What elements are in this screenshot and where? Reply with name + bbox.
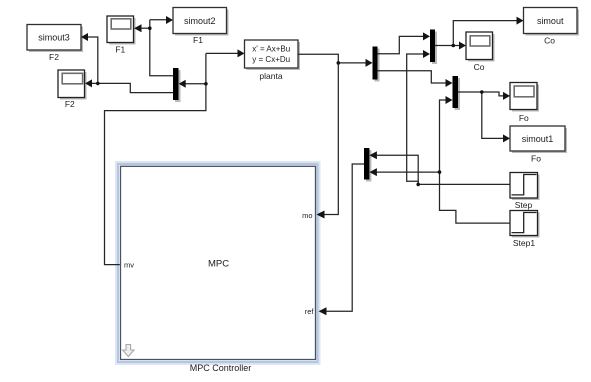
source block Step (flipped) <box>510 173 540 201</box>
scope F1 <box>107 16 136 45</box>
svg-text:Fo: Fo <box>531 154 541 164</box>
arrowhead into mux M3 in1 <box>446 79 453 87</box>
svg-text:MPC Controller: MPC Controller <box>190 363 252 373</box>
svg-text:simout3: simout3 <box>38 33 70 43</box>
arrowhead into demux D2 <box>179 80 186 88</box>
arrowhead into planta <box>238 49 245 57</box>
wire step to mux M2 input2 <box>407 54 424 184</box>
svg-text:Co: Co <box>544 36 555 46</box>
wire to scope F2 <box>91 83 173 92</box>
block simout2 <box>173 8 229 36</box>
arrowhead into mux M3 in2 <box>446 96 453 104</box>
demux D2 (left, flipped) <box>173 68 181 102</box>
wire simout3 feed <box>87 37 98 83</box>
arrowhead into simout1 <box>503 134 510 142</box>
wire junction to simout2 <box>150 19 167 21</box>
wire mux M4 out to ref <box>327 164 365 311</box>
wire mv line <box>105 53 206 264</box>
junction node at Co tap <box>452 44 456 48</box>
arrowhead into scope Fo <box>503 92 510 100</box>
wire demux D2 input <box>185 83 206 85</box>
junction node at simout3/F2 tap <box>96 82 100 86</box>
wire mux M2 out to scope Co <box>435 45 460 47</box>
svg-text:Step: Step <box>515 200 533 210</box>
wire Step output <box>376 155 510 184</box>
arrowhead into simout2 <box>166 16 173 24</box>
arrowhead into mux M2 in2 <box>423 50 430 58</box>
source block Step1 (flipped) <box>510 211 540 238</box>
block simout (Co) <box>524 8 580 36</box>
svg-text:Co: Co <box>474 62 485 72</box>
arrowhead into simout3 <box>81 33 88 41</box>
junction node at Step1 tap <box>438 170 442 174</box>
arrowhead into mo port <box>317 211 325 219</box>
arrowhead into demux D1 <box>366 59 373 67</box>
wire planta out <box>298 54 338 214</box>
demux D1 (after planta) <box>373 47 380 82</box>
wire junction to simout1 <box>482 92 504 138</box>
svg-text:F1: F1 <box>115 45 125 55</box>
junction node at F1 tap <box>148 26 152 30</box>
state-space block planta <box>245 40 301 70</box>
wire D1 out1 to mux M2 <box>378 36 425 53</box>
wire D1 out2 to mux M3 <box>378 71 447 83</box>
svg-text:F1: F1 <box>193 35 203 45</box>
arrowhead into mux M2 in1 <box>423 32 430 40</box>
svg-text:MPC: MPC <box>208 259 229 270</box>
block simout1 <box>510 126 567 153</box>
wire Step1 output <box>440 100 511 223</box>
svg-text:simout1: simout1 <box>522 134 554 144</box>
dropdown arrow icon <box>123 345 134 357</box>
junction node at demux D2 tap <box>204 82 208 86</box>
mux M2 (to Co) <box>430 30 437 65</box>
svg-text:simout: simout <box>537 16 564 26</box>
junction node at Fo tap <box>480 90 484 94</box>
wire junction to scope F1 <box>141 27 150 29</box>
svg-text:x' = Ax+Bu: x' = Ax+Bu <box>252 45 290 54</box>
wire junction to demux D1 <box>338 62 366 64</box>
scope Fo <box>510 83 539 112</box>
scope Co <box>466 32 495 62</box>
arrowhead into scope F1 <box>134 24 142 32</box>
scope F2 <box>58 70 87 100</box>
arrowhead into scope F2 <box>85 79 92 87</box>
arrowhead into simout <box>517 17 524 25</box>
wire demux D2 top out to junction <box>150 20 173 76</box>
svg-text:mv: mv <box>124 261 134 270</box>
svg-text:Fo: Fo <box>519 113 529 123</box>
mux M4 (flipped, to ref) <box>364 148 371 182</box>
wire junction to mux M4 input2 <box>376 171 440 173</box>
block simout3 <box>27 25 83 53</box>
svg-text:Step1: Step1 <box>513 238 535 248</box>
svg-text:ref: ref <box>305 307 315 316</box>
junction node at planta out tap <box>337 61 341 65</box>
svg-text:mo: mo <box>302 211 312 220</box>
svg-text:planta: planta <box>259 71 282 81</box>
wire mux M3 out to scope Fo <box>458 92 504 96</box>
MPC Controller block U1 <box>116 162 320 364</box>
svg-text:y = Cx+Du: y = Cx+Du <box>252 55 290 64</box>
svg-text:simout2: simout2 <box>184 16 216 26</box>
svg-text:F2: F2 <box>49 52 59 62</box>
svg-text:F2: F2 <box>65 99 75 109</box>
arrowhead into ref port <box>319 307 327 315</box>
arrowhead into scope Co <box>459 42 466 50</box>
wire mv to planta <box>206 52 239 54</box>
arrowhead into mux M4 in2 <box>369 168 377 176</box>
arrowhead into mux M4 in1 <box>369 151 377 159</box>
wire junction to simout <box>453 21 517 46</box>
junction node at Step tap <box>416 183 420 187</box>
mux M3 (to Fo) <box>453 76 461 110</box>
